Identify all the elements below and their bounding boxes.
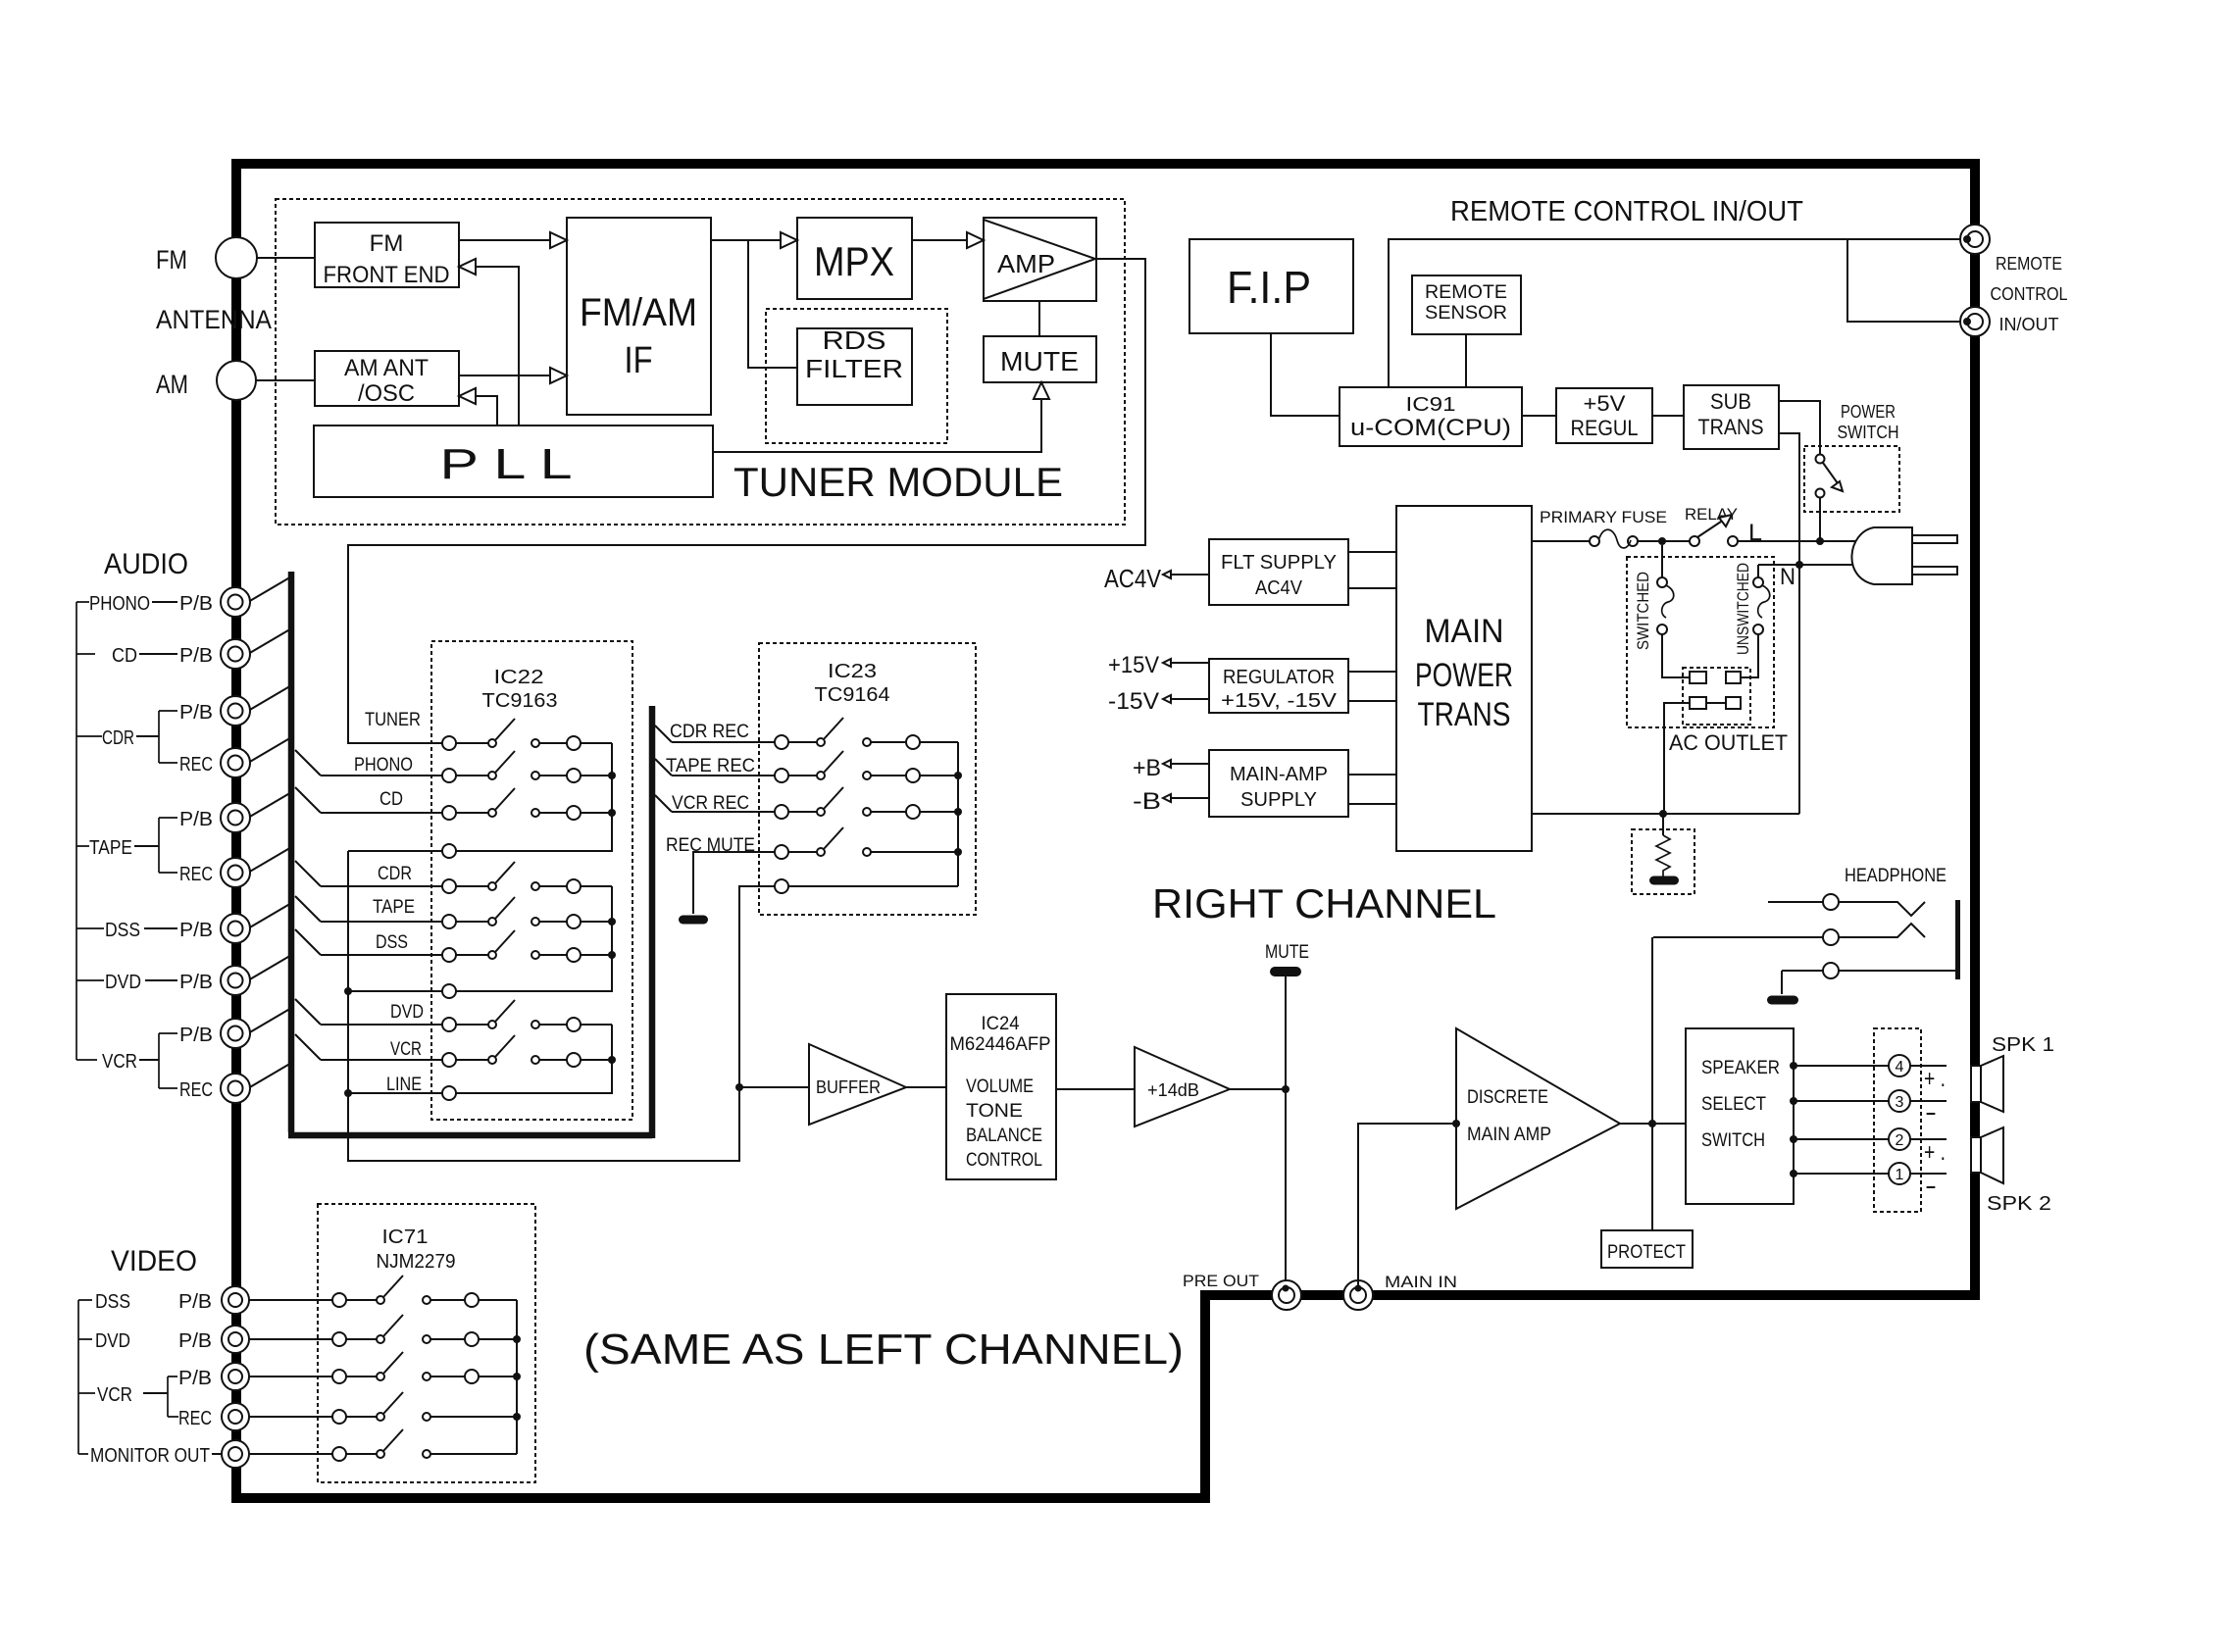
audio signal bus thick line [288, 572, 652, 1138]
AC outlet socket dashed box [1683, 668, 1750, 725]
mute block [984, 336, 1096, 382]
wire transformer primary return [1532, 813, 1799, 815]
svg-text:+ .: + . [1924, 1139, 1946, 1166]
svg-text:BUFFER: BUFFER [816, 1077, 881, 1097]
outlet slot 3 [1690, 697, 1706, 709]
svg-text:P/B: P/B [178, 1368, 212, 1389]
svg-text:POWER: POWER [1415, 657, 1513, 694]
svg-text:CDR REC: CDR REC [670, 722, 749, 742]
IC23 output contact [775, 879, 788, 893]
speaker terminal 4 [1889, 1055, 1910, 1076]
svg-text:TUNER: TUNER [365, 710, 421, 730]
amp A1 block [984, 218, 1096, 301]
mute ground bar [1270, 967, 1301, 976]
IC22 switch DSS [442, 948, 456, 962]
wire MONITOR OUT jack [249, 1453, 332, 1455]
headphone sleeve bar [1955, 900, 1960, 979]
IC22 switch CD [442, 806, 456, 820]
svg-text:FM/AM: FM/AM [580, 291, 697, 334]
svg-text:VIDEO: VIDEO [111, 1245, 197, 1277]
svg-text:DVD: DVD [95, 1330, 130, 1352]
svg-text:-: - [1925, 1171, 1937, 1200]
wire main-amp supply to trans 2 [1348, 803, 1396, 805]
tuner module dashed box [276, 199, 1125, 525]
+5V regulator block [1556, 388, 1652, 443]
svg-text:3: 3 [1896, 1094, 1904, 1111]
wire VCR P/B jack tap [248, 1007, 293, 1033]
wire bus tap to CD row [295, 787, 321, 813]
wire DSS jack tap [248, 902, 293, 928]
AM antenna jack [217, 361, 256, 400]
speaker select switch block [1686, 1028, 1794, 1204]
svg-text:AM ANT: AM ANT [344, 355, 429, 381]
svg-text:PROTECT: PROTECT [1607, 1242, 1686, 1263]
svg-text:CD: CD [379, 789, 403, 810]
svg-text:P/B: P/B [179, 972, 213, 993]
headphone jack sleeve contact [1782, 970, 1823, 972]
wire CD jack tap [248, 627, 293, 654]
svg-text:TUNER MODULE: TUNER MODULE [733, 459, 1063, 505]
svg-text:REC: REC [179, 1079, 213, 1101]
IC71 dashed box [318, 1204, 535, 1482]
VCR video bracket [168, 1377, 178, 1417]
svg-text:P/B: P/B [179, 920, 213, 941]
bleeder resistor dashed box [1632, 829, 1694, 894]
svg-text:TRANS: TRANS [1418, 696, 1511, 733]
svg-text:AC OUTLET: AC OUTLET [1669, 730, 1788, 755]
wire sub trans to mains N and transformer [1779, 433, 1799, 814]
svg-text:DSS: DSS [95, 1291, 130, 1313]
IC22 switch DVD [442, 1018, 456, 1031]
svg-text:MAIN-AMP: MAIN-AMP [1230, 764, 1328, 785]
speaker terminal 3 [1889, 1090, 1910, 1112]
wire VCR video P/B jack [249, 1376, 332, 1377]
svg-text:IC24: IC24 [982, 1014, 1020, 1034]
svg-text:IF: IF [625, 340, 653, 381]
svg-text:CONTROL: CONTROL [1991, 284, 2068, 304]
svg-text:2: 2 [1896, 1132, 1904, 1149]
headphone ground bar [1767, 996, 1798, 1005]
wire trans to fuse [1532, 540, 1590, 542]
speaker SPK2 icon [1971, 1137, 1981, 1173]
wire speaker line 3 [1790, 1097, 1797, 1105]
svg-text:-: - [1925, 1097, 1937, 1126]
svg-text:MUTE: MUTE [1265, 942, 1309, 963]
svg-text:N: N [1780, 564, 1795, 590]
wire +B output with arrow [1171, 763, 1209, 765]
IC71 switch VCR P/B [332, 1370, 346, 1383]
buffer amp triangle [809, 1044, 906, 1125]
wire CDR P/B jack tap [248, 684, 293, 711]
svg-text:SWITCH: SWITCH [1701, 1130, 1765, 1151]
svg-text:P/B: P/B [179, 593, 213, 615]
wire regulator to trans 2 [1348, 700, 1396, 702]
wire -B output with arrow [1171, 797, 1209, 799]
VCR P/B jack [221, 1019, 250, 1048]
wire fuse to relay [1638, 540, 1690, 542]
headphone jack ring contact [1653, 936, 1823, 938]
svg-text:+B: +B [1133, 755, 1161, 781]
outlet slot 2 [1726, 672, 1741, 683]
svg-text:REMOTE CONTROL IN/OUT: REMOTE CONTROL IN/OUT [1450, 196, 1803, 227]
svg-text:+14dB: +14dB [1147, 1080, 1199, 1100]
relay contact RY1 [1690, 536, 1699, 546]
svg-text:/OSC: /OSC [358, 380, 415, 407]
wire bus tap to TAPE REC row [655, 759, 672, 776]
svg-text:-15V: -15V [1108, 688, 1159, 715]
wire branch to RDS filter [748, 240, 797, 368]
svg-text:VCR: VCR [390, 1039, 422, 1060]
svg-text:AUDIO: AUDIO [104, 548, 188, 580]
VCR video REC jack [222, 1403, 249, 1430]
svg-text:+15V, -15V: +15V, -15V [1221, 690, 1338, 712]
wire mute to amp [1038, 301, 1040, 336]
svg-text:SPK 2: SPK 2 [1987, 1193, 2051, 1215]
svg-text:+ .: + . [1924, 1066, 1946, 1092]
RDS filter block [797, 328, 912, 405]
video source bracket [78, 1300, 95, 1454]
IC71 switch DSS [332, 1293, 346, 1307]
wire bus tap to CDR row [295, 861, 321, 886]
svg-text:BALANCE: BALANCE [966, 1126, 1042, 1146]
ground bar under resistor [1649, 876, 1679, 885]
svg-text:REC: REC [179, 754, 213, 776]
svg-text:TAPE: TAPE [373, 897, 415, 918]
svg-text:TC9163: TC9163 [482, 690, 558, 712]
wire speaker line 1 [1790, 1170, 1797, 1177]
wire AM jack to ant/osc [256, 379, 315, 381]
svg-text:DSS: DSS [376, 932, 408, 953]
DVD video jack [222, 1326, 249, 1353]
PLL block [314, 426, 713, 497]
svg-text:REMOTE: REMOTE [1996, 254, 2062, 274]
IC23 dashed box [759, 643, 976, 915]
svg-text:AMP: AMP [997, 249, 1055, 278]
regulator +15/-15 block [1209, 659, 1348, 713]
svg-text:FRONT END: FRONT END [324, 262, 450, 288]
IC71 switch DVD [332, 1332, 346, 1346]
DSS jack [221, 914, 250, 943]
wire terminal 4 to speaker [1910, 1065, 1947, 1067]
svg-text:SUB: SUB [1710, 389, 1751, 414]
wire outlet return to transformer [1664, 703, 1690, 814]
IC24 volume control block [946, 994, 1056, 1179]
svg-text:MAIN: MAIN [1425, 613, 1504, 650]
IC71 switch VCR REC [332, 1410, 346, 1424]
wire relay to plug L [1738, 540, 1855, 542]
power switch S1 [1816, 455, 1825, 464]
MONITOR OUT jack [222, 1440, 249, 1468]
wire +5V regul to sub trans [1652, 415, 1684, 417]
AC plug P1 [1851, 527, 1912, 584]
wire FIP to IC91 [1271, 333, 1340, 416]
power switch dashed box [1804, 446, 1899, 512]
svg-text:P/B: P/B [179, 809, 213, 830]
wire DSS video jack [249, 1299, 332, 1301]
svg-text:UNSWITCHED: UNSWITCHED [1734, 563, 1752, 655]
FM antenna jack [216, 237, 257, 278]
svg-text:AM: AM [156, 370, 188, 399]
wire terminal 2 to speaker [1910, 1138, 1947, 1140]
IC22 group2 output bus [456, 886, 612, 991]
svg-text:AC4V: AC4V [1255, 577, 1303, 599]
svg-text:SWITCHED: SWITCHED [1634, 572, 1652, 650]
wire headphone feed and protect [1651, 937, 1653, 1230]
IC22 group2 output contact [442, 984, 456, 998]
svg-text:P/B: P/B [179, 645, 213, 667]
svg-text:ANTENNA: ANTENNA [156, 305, 272, 334]
svg-text:PRE OUT: PRE OUT [1183, 1272, 1259, 1290]
discrete main amp triangle [1456, 1028, 1620, 1209]
svg-text:CDR: CDR [102, 727, 134, 749]
svg-text:IN/OUT: IN/OUT [1999, 315, 2059, 334]
wire +14dB to pre out [1230, 1088, 1286, 1090]
VCR video P/B jack [222, 1363, 249, 1390]
TAPE P/B-REC bracket [159, 818, 177, 873]
IC22 group1 output bus [456, 743, 612, 851]
unswitched contact [1757, 565, 1759, 577]
wire plug N [1758, 564, 1855, 566]
wire PLL to am/osc with arrow [477, 396, 497, 426]
IC71 output bus [516, 1300, 518, 1454]
IC22 switch VCR [442, 1053, 456, 1067]
wire VCR video REC jack [249, 1416, 332, 1418]
svg-text:REC MUTE: REC MUTE [666, 835, 755, 856]
svg-text:FM: FM [370, 230, 404, 257]
wire switched to outlet [1662, 634, 1690, 677]
wire bus to buffer [739, 1086, 809, 1088]
CDR P/B-REC bracket [159, 711, 177, 763]
main-amp supply block [1209, 750, 1348, 817]
wire PLL to mute with arrow [713, 400, 1041, 452]
wire remote sensor to IC91 [1465, 334, 1467, 387]
wire FLT supply to trans 1 [1348, 551, 1396, 553]
wire remote in/out to CPU [1389, 239, 1965, 387]
PHONO jack [221, 587, 250, 617]
svg-text:RIGHT CHANNEL: RIGHT CHANNEL [1152, 880, 1496, 926]
speaker terminal dashed box [1874, 1028, 1921, 1212]
remote control jack 2 [1960, 307, 1990, 336]
svg-text:PRIMARY FUSE: PRIMARY FUSE [1540, 508, 1667, 526]
svg-text:SUPPLY: SUPPLY [1240, 789, 1317, 811]
sub transformer block [1684, 385, 1779, 449]
wire buffer to IC24 [906, 1086, 946, 1088]
wire IC91 to +5V regul [1522, 415, 1556, 417]
FM front end U-FM [315, 223, 459, 287]
svg-text:MONITOR OUT: MONITOR OUT [90, 1445, 210, 1467]
svg-text:+15V: +15V [1108, 652, 1159, 678]
audio source bracket [76, 602, 104, 1060]
IC22 switch CDR [442, 879, 456, 893]
wire FLT supply to trans 2 [1348, 587, 1396, 589]
svg-text:REMOTE: REMOTE [1425, 282, 1507, 303]
svg-text:CD: CD [112, 645, 137, 667]
wire outlet slots link [1706, 702, 1726, 704]
svg-text:SELECT: SELECT [1701, 1094, 1766, 1115]
AC outlet dashed box [1627, 557, 1774, 727]
svg-text:DISCRETE: DISCRETE [1467, 1087, 1548, 1108]
svg-text:REC: REC [178, 1408, 212, 1429]
wire sub trans to power switch [1779, 401, 1820, 454]
svg-text:PHONO: PHONO [89, 593, 150, 615]
pre out jack [1272, 1280, 1301, 1310]
wire bus tap to DVD row [295, 999, 321, 1025]
DSS video jack [222, 1286, 249, 1314]
wire TAPE P/B jack tap [248, 791, 293, 818]
svg-text:-B: -B [1133, 788, 1161, 815]
svg-text:CONTROL: CONTROL [966, 1150, 1042, 1171]
AM ant/osc block [315, 351, 459, 406]
svg-text:VCR: VCR [102, 1051, 137, 1073]
wire speaker line 4 [1790, 1062, 1797, 1070]
MPX block [797, 218, 912, 299]
svg-text:MAIN AMP: MAIN AMP [1467, 1125, 1551, 1145]
wire power switch to L line [1819, 498, 1821, 541]
wire main-amp supply to trans 1 [1348, 774, 1396, 776]
svg-text:MPX: MPX [814, 238, 894, 284]
remote sensor block [1412, 275, 1521, 334]
svg-text:DVD: DVD [390, 1002, 424, 1023]
DVD jack [221, 966, 250, 995]
wire front end to IF with arrow [459, 239, 550, 241]
svg-text:HEADPHONE: HEADPHONE [1845, 866, 1947, 886]
wire CDR REC jack tap [248, 736, 293, 763]
IC23 output bus [957, 742, 959, 886]
IC23 switch TAPE REC [775, 769, 788, 782]
IC23 switch CDR REC [775, 735, 788, 749]
svg-text:P L L: P L L [440, 440, 573, 488]
IC23 switch REC MUTE [775, 845, 788, 859]
IC22 dashed box [431, 641, 632, 1120]
wire AMP output to tuner bus [348, 259, 1145, 743]
wire REC MUTE to ground [693, 852, 775, 914]
IC22 LINE input contact [442, 1086, 456, 1100]
wire selected signal bus to buffer [348, 851, 775, 1161]
svg-text:+5V: +5V [1584, 391, 1626, 416]
wire bus tap to VCR REC row [655, 795, 672, 812]
CD jack [221, 639, 250, 669]
protect block [1601, 1230, 1693, 1268]
svg-text:RDS: RDS [823, 325, 886, 355]
svg-text:F.I.P: F.I.P [1227, 262, 1311, 313]
IC91 u-COM CPU block [1340, 387, 1522, 446]
svg-text:PHONO: PHONO [354, 755, 413, 776]
svg-text:L: L [1748, 520, 1762, 546]
IC23 switch VCR REC [775, 805, 788, 819]
wire -15V output with arrow [1171, 698, 1209, 700]
svg-text:CDR: CDR [378, 864, 412, 884]
wire IC24 to +14dB amp [1056, 1088, 1135, 1090]
CDR P/B jack [221, 696, 250, 726]
svg-text:LINE: LINE [386, 1075, 422, 1095]
svg-text:DVD: DVD [105, 972, 141, 993]
wire VCR REC jack tap [248, 1062, 293, 1088]
wire unswitched to outlet [1741, 634, 1758, 677]
TAPE REC jack [221, 858, 250, 887]
wire bus tap to CDR REC row [655, 726, 672, 742]
svg-text:FLT SUPPLY: FLT SUPPLY [1221, 552, 1337, 574]
wire AC4V output with arrow [1171, 574, 1209, 576]
chassis border (thick outline) [236, 164, 1975, 1498]
primary fuse F1 [1590, 536, 1599, 546]
speaker terminal 2 [1889, 1128, 1910, 1150]
svg-text:AC4V: AC4V [1104, 564, 1162, 593]
svg-text:SENSOR: SENSOR [1425, 303, 1507, 324]
speaker SPK1 icon [1971, 1066, 1981, 1102]
IC22 switch TAPE [442, 915, 456, 928]
svg-text:(SAME AS LEFT CHANNEL): (SAME AS LEFT CHANNEL) [583, 1326, 1184, 1374]
wire DVD video jack [249, 1338, 332, 1340]
svg-text:TONE: TONE [966, 1101, 1023, 1122]
wire headphone sleeve to ground [1781, 971, 1783, 994]
svg-text:REGULATOR: REGULATOR [1223, 667, 1335, 688]
svg-text:TRANS: TRANS [1698, 415, 1764, 439]
wire +15V output with arrow [1171, 662, 1209, 664]
svg-text:SPEAKER: SPEAKER [1701, 1058, 1780, 1078]
REC MUTE ground bar [679, 916, 708, 925]
wire bus tap to TAPE row [295, 896, 321, 922]
svg-text:P/B: P/B [179, 1025, 213, 1046]
svg-text:DSS: DSS [105, 920, 140, 941]
IC71 switch MONITOR [332, 1447, 346, 1461]
wire bus tap to DSS row [295, 929, 321, 955]
outlet slot 4 [1726, 697, 1741, 709]
svg-text:TAPE REC: TAPE REC [666, 756, 755, 776]
wire remote jack2 link [1847, 239, 1965, 322]
TAPE P/B jack [221, 803, 250, 832]
svg-text:MAIN IN: MAIN IN [1385, 1273, 1457, 1291]
wire bus tap to VCR row [295, 1034, 321, 1060]
svg-text:IC71: IC71 [382, 1226, 429, 1248]
svg-text:M62446AFP: M62446AFP [950, 1034, 1051, 1055]
svg-text:IC91: IC91 [1406, 394, 1456, 416]
headphone jack tip contact [1768, 901, 1823, 903]
svg-text:FILTER: FILTER [805, 354, 903, 383]
RDS filter dashed box [766, 309, 947, 443]
VCR P/B-REC bracket [159, 1033, 177, 1088]
svg-text:REC: REC [179, 864, 213, 885]
main in jack [1343, 1280, 1373, 1310]
wire amp output to speaker switch [1620, 1123, 1686, 1125]
svg-text:FM: FM [156, 245, 187, 275]
wire mute line to pre out jack [1285, 976, 1287, 1287]
svg-text:VCR: VCR [97, 1384, 132, 1406]
wire am ant to IF with arrow [459, 375, 550, 376]
wire MPX to AMP with arrow [912, 239, 967, 241]
svg-text:NJM2279: NJM2279 [377, 1251, 456, 1273]
FM/AM IF block [567, 218, 711, 415]
AC plug prong 2 [1912, 567, 1957, 575]
+14dB amp triangle [1135, 1047, 1230, 1126]
IC22 group3 output bus [456, 1025, 612, 1093]
svg-text:VOLUME: VOLUME [966, 1076, 1034, 1097]
wire terminal 3 to speaker [1910, 1100, 1947, 1102]
F.I.P display block [1189, 239, 1353, 333]
svg-text:u-COM(CPU): u-COM(CPU) [1350, 415, 1511, 441]
svg-text:1: 1 [1896, 1167, 1904, 1183]
main power transformer T1 [1396, 506, 1532, 851]
bleeder resistor R1 [1662, 814, 1664, 835]
svg-text:SPK 1: SPK 1 [1992, 1034, 2054, 1056]
wire TAPE REC jack tap [248, 846, 293, 873]
wire speaker line 2 [1790, 1135, 1797, 1143]
wire IF to MPX with arrow [711, 239, 781, 241]
svg-text:IC22: IC22 [494, 667, 544, 688]
IC22 switch PHONO [442, 769, 456, 782]
IC22 switch TUNER [442, 736, 456, 750]
AC plug prong 1 [1912, 535, 1957, 543]
svg-text:REGUL: REGUL [1571, 416, 1639, 440]
